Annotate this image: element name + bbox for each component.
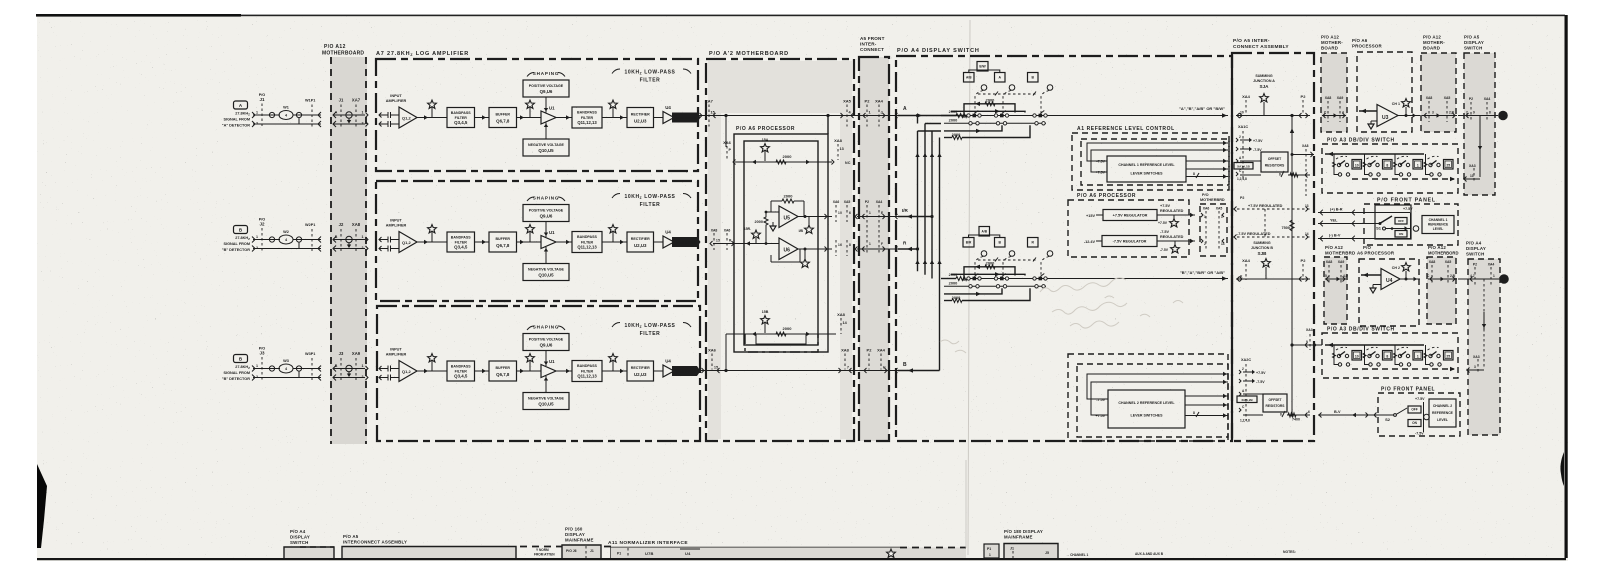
- svg-text:XA8: XA8: [841, 348, 850, 353]
- svg-text:FILTER: FILTER: [581, 116, 594, 120]
- vertical bus lines: [917, 131, 919, 271]
- svg-text:(+) B-R: (+) B-R: [1330, 208, 1343, 212]
- channel input banner: [672, 366, 701, 376]
- svg-text:B/W: B/W: [979, 64, 985, 68]
- svg-text:+7.5V: +7.5V: [1403, 207, 1413, 211]
- svg-text:Q1,2: Q1,2: [402, 369, 411, 374]
- svg-text:13: 13: [1470, 174, 1474, 178]
- svg-text:CHANNEL 2 REFERENCE LEVEL: CHANNEL 2 REFERENCE LEVEL: [1118, 401, 1175, 405]
- svg-text:2000: 2000: [986, 97, 995, 102]
- svg-text:J2: J2: [339, 222, 344, 227]
- wire: [417, 241, 447, 243]
- bandpass filter Q3,4,5: [447, 361, 475, 381]
- R wire left + node: [713, 243, 779, 245]
- svg-text:8: 8: [1489, 111, 1491, 115]
- svg-text:XA6: XA6: [708, 348, 717, 353]
- svg-text:SHAPING: SHAPING: [533, 196, 560, 201]
- svg-text:NEGATIVE VOLTAGE: NEGATIVE VOLTAGE: [528, 143, 565, 147]
- svg-text:2: 2: [362, 122, 364, 126]
- svg-text:3: 3: [1474, 365, 1476, 369]
- svg-text:BANDPASS: BANDPASS: [451, 235, 472, 239]
- svg-text:P/O A5: P/O A5: [1464, 35, 1480, 40]
- svg-text:FILTER: FILTER: [640, 331, 661, 337]
- svg-text:XA8: XA8: [837, 312, 846, 317]
- svg-text:-7.5V: -7.5V: [1415, 432, 1424, 436]
- svg-text:8: 8: [1193, 172, 1195, 176]
- svg-text:FILTER: FILTER: [640, 78, 661, 84]
- svg-text:+7.5V REGULATOR: +7.5V REGULATOR: [1113, 213, 1148, 217]
- amplifier row at y=371.0: [379, 323, 701, 410]
- svg-text:+7.5V: +7.5V: [1160, 204, 1170, 208]
- 7500 resistor on rail: [1290, 220, 1294, 231]
- channel input banner: [672, 237, 701, 247]
- svg-text:Q1,2: Q1,2: [402, 240, 411, 245]
- svg-text:SWITCH: SWITCH: [1466, 252, 1485, 257]
- svg-text:U4: U4: [1386, 278, 1393, 284]
- processor bottom loop for row B: [725, 334, 727, 371]
- svg-text:SJA: SJA: [1260, 84, 1270, 89]
- svg-text:A: A: [903, 106, 907, 112]
- positive voltage shaper Q9,U6: [523, 205, 569, 222]
- log amp box row3: [377, 306, 700, 441]
- svg-text:NEGATIVE VOLTAGE: NEGATIVE VOLTAGE: [528, 267, 565, 271]
- svg-text:INTERCONNECT ASSEMBLY: INTERCONNECT ASSEMBLY: [343, 540, 407, 545]
- relay network 1 component boxes: [977, 62, 988, 72]
- svg-text:9: 9: [1473, 111, 1475, 115]
- rectifier U2,U3: [627, 108, 654, 128]
- svg-text:XA6: XA6: [724, 229, 731, 233]
- bandpass filter Q3,4,5: [447, 232, 475, 252]
- svg-text:XA4: XA4: [1484, 97, 1491, 101]
- input amplifier Q1,2: [399, 107, 417, 128]
- svg-text:P/O A6 PROCESSOR: P/O A6 PROCESSOR: [736, 126, 795, 132]
- node A circle: [1498, 111, 1508, 121]
- svg-text:P/O A3 DB/DIV SWITCH: P/O A3 DB/DIV SWITCH: [1327, 138, 1395, 144]
- svg-text:FILTER: FILTER: [581, 369, 594, 373]
- amplifier row at y=242.0: [379, 194, 701, 281]
- svg-text:J5: J5: [1045, 551, 1049, 555]
- bandpass filter Q3,4,5: [447, 108, 475, 128]
- svg-text:I/B: I/B: [799, 229, 804, 233]
- svg-text:10KHZ LOW-PASS: 10KHZ LOW-PASS: [624, 70, 675, 76]
- svg-text:10: 10: [1355, 355, 1359, 359]
- svg-text:A: A: [335, 111, 338, 115]
- op-amp U5: [779, 206, 798, 228]
- svg-text:U4: U4: [685, 551, 691, 556]
- svg-text:XA7: XA7: [352, 98, 361, 103]
- svg-text:XA2C: XA2C: [1241, 358, 1251, 362]
- svg-text:+7.5V REGULATED: +7.5V REGULATED: [1248, 204, 1283, 208]
- page bottom edge line: [37, 558, 1566, 560]
- svg-text:16: 16: [838, 243, 842, 247]
- svg-text:7400: 7400: [1292, 418, 1300, 422]
- svg-text:XA5: XA5: [844, 200, 851, 204]
- svg-text:SWITCH: SWITCH: [290, 540, 309, 545]
- svg-text:"A" DETECTOR: "A" DETECTOR: [222, 124, 250, 128]
- svg-text:XA4: XA4: [1242, 258, 1251, 263]
- svg-text:CHANNEL 1 REFERENCE LEVEL: CHANNEL 1 REFERENCE LEVEL: [1118, 163, 1175, 167]
- svg-text:1: 1: [362, 235, 364, 239]
- U6 feedback loop: [770, 255, 772, 262]
- svg-text:J3: J3: [259, 351, 265, 356]
- channel input banner: [672, 113, 701, 123]
- svg-text:-12.4V: -12.4V: [1084, 240, 1096, 244]
- svg-text:OFF: OFF: [1411, 408, 1417, 412]
- svg-text:J1: J1: [259, 97, 265, 102]
- svg-text:15R.: 15R.: [744, 227, 751, 231]
- svg-text:1: 1: [989, 553, 991, 557]
- svg-text:AMPLIFIER: AMPLIFIER: [386, 353, 407, 357]
- svg-text:-7.5V: -7.5V: [1253, 148, 1262, 152]
- svg-text:7500: 7500: [1282, 226, 1290, 230]
- positive voltage shaper Q9,U6: [523, 334, 569, 351]
- svg-text:10KHZ LOW-PASS: 10KHZ LOW-PASS: [624, 323, 675, 329]
- test point star: [431, 361, 433, 371]
- svg-text:P2: P2: [1301, 258, 1307, 263]
- svg-text:PROCESSOR: PROCESSOR: [1352, 44, 1382, 49]
- svg-text:P2: P2: [1240, 196, 1244, 200]
- svg-text:Q3,4,5: Q3,4,5: [454, 245, 468, 250]
- svg-text:BANDPASS: BANDPASS: [577, 111, 598, 115]
- buffer Q6,7,8: [489, 108, 517, 128]
- svg-text:P/O A12: P/O A12: [1428, 245, 1446, 250]
- svg-text:X/2A,2B: X/2A,2B: [1241, 398, 1253, 402]
- svg-text:XA8: XA8: [1429, 260, 1436, 264]
- svg-text:10: 10: [1355, 164, 1359, 168]
- svg-text:I/R: I/R: [902, 208, 909, 213]
- svg-text:RECTIFIER: RECTIFIER: [631, 237, 650, 241]
- svg-text:NEGATIVE VOLTAGE: NEGATIVE VOLTAGE: [528, 396, 565, 400]
- svg-text:BANDPASS: BANDPASS: [577, 235, 598, 239]
- svg-text:XA4: XA4: [1488, 263, 1495, 267]
- svg-text:1: 1: [1493, 274, 1495, 278]
- svg-text:P2: P2: [1469, 97, 1473, 101]
- svg-text:XA4: XA4: [1242, 94, 1251, 99]
- svg-text:Q6,7,8: Q6,7,8: [496, 243, 510, 248]
- svg-text:DISPLAY: DISPLAY: [1464, 40, 1484, 45]
- rectifier U2,U3: [627, 232, 654, 252]
- svg-text:XA8: XA8: [352, 222, 361, 227]
- svg-text:Q10,U5: Q10,U5: [538, 148, 554, 153]
- A5 front interconnect column: [859, 57, 889, 441]
- svg-text:MOTHERBORD: MOTHERBORD: [1428, 251, 1458, 256]
- channel 2 reference level cluster: [1068, 354, 1228, 441]
- log amp box row1: [376, 59, 698, 171]
- svg-text:2000: 2000: [755, 220, 763, 224]
- input amplifier Q1,2: [399, 361, 417, 382]
- svg-text:MAINFRAME: MAINFRAME: [565, 538, 594, 543]
- svg-text:P/O A4: P/O A4: [290, 529, 306, 534]
- svg-text:W2P1: W2P1: [305, 223, 315, 227]
- svg-text:8: 8: [849, 243, 851, 247]
- svg-text:CHAN B INPUT: CHAN B INPUT: [676, 116, 696, 120]
- svg-text:P/O A6: P/O A6: [1352, 38, 1368, 43]
- svg-text:AMPLIFIER: AMPLIFIER: [386, 99, 407, 103]
- svg-text:1: 1: [256, 235, 258, 239]
- wire: [417, 370, 447, 372]
- svg-text:J1: J1: [590, 549, 594, 553]
- svg-text:7: 7: [847, 366, 849, 370]
- bandpass filter Q11,12,13: [572, 107, 602, 128]
- svg-text:SHAPING: SHAPING: [533, 325, 560, 330]
- relay network 1: [981, 85, 987, 91]
- svg-text:W3: W3: [283, 359, 289, 363]
- ground: [772, 222, 774, 226]
- svg-text:P/O FRONT PANEL: P/O FRONT PANEL: [1377, 198, 1436, 204]
- svg-text:W1P1: W1P1: [305, 99, 315, 103]
- svg-text:CHAN B INPUT: CHAN B INPUT: [676, 241, 696, 245]
- svg-text:XA6: XA6: [1203, 207, 1210, 211]
- svg-text:+7.5V: +7.5V: [1253, 139, 1263, 143]
- svg-text:P/O: P/O: [1202, 193, 1209, 197]
- op-amp U1: [541, 236, 556, 249]
- svg-text:XA8: XA8: [1326, 260, 1333, 264]
- handwritten pencil scribbles: [1040, 278, 1126, 292]
- bus steps net1: [918, 116, 942, 132]
- svg-text:A7 27.8KHZ LOG AMPLIFIER: A7 27.8KHZ LOG AMPLIFIER: [376, 51, 469, 57]
- svg-text:3: 3: [1432, 111, 1434, 115]
- svg-text:XA4: XA4: [875, 99, 884, 104]
- svg-text:FILTER: FILTER: [581, 240, 594, 244]
- svg-text:2000: 2000: [949, 109, 958, 114]
- svg-text:OFFSET: OFFSET: [1268, 157, 1282, 161]
- svg-text:U4: U4: [665, 230, 671, 235]
- svg-text:CHAN B INPUT: CHAN B INPUT: [676, 370, 696, 374]
- row B wire across motherboard: [700, 370, 860, 372]
- svg-text:JUNCTION B: JUNCTION B: [1251, 246, 1273, 250]
- svg-text:POSITIVE VOLTAGE: POSITIVE VOLTAGE: [529, 337, 564, 341]
- svg-text:SIGNAL FROM: SIGNAL FROM: [223, 118, 250, 122]
- svg-text:MOTHER-: MOTHER-: [1423, 40, 1445, 45]
- svg-text:R: R: [729, 239, 732, 243]
- svg-text:JUNCTION A: JUNCTION A: [1253, 79, 1275, 83]
- svg-text:XA1A,1B: XA1A,1B: [1237, 165, 1251, 169]
- svg-text:25: 25: [1446, 355, 1450, 359]
- op-amp U4 right: [1381, 269, 1400, 290]
- svg-text:1: 1: [362, 364, 364, 368]
- svg-text:LEVER SWITCHES: LEVER SWITCHES: [1131, 172, 1164, 176]
- svg-text:XA5: XA5: [843, 99, 852, 104]
- bandpass filter Q11,12,13: [572, 361, 602, 382]
- svg-text:OFFSET: OFFSET: [1268, 398, 1281, 402]
- svg-text:AMPLIFIER: AMPLIFIER: [386, 224, 407, 228]
- svg-text:Q10,U5: Q10,U5: [538, 272, 554, 277]
- svg-text:W2: W2: [283, 230, 289, 234]
- svg-text:XA6: XA6: [833, 200, 840, 204]
- svg-text:J2: J2: [259, 222, 265, 227]
- svg-text:RECTIFIER: RECTIFIER: [631, 366, 650, 370]
- svg-text:(-) B-V: (-) B-V: [1329, 234, 1341, 238]
- svg-text:REFERENCE: REFERENCE: [1432, 411, 1454, 415]
- svg-text:INTER-: INTER-: [860, 42, 877, 47]
- 15A star: [764, 151, 766, 161]
- input row J3: [222, 347, 368, 382]
- svg-text:-7.5V: -7.5V: [1160, 248, 1169, 252]
- svg-text:P2: P2: [865, 99, 871, 104]
- svg-text:A1 REFERENCE LEVEL CONTROL: A1 REFERENCE LEVEL CONTROL: [1077, 126, 1175, 132]
- svg-text:15: 15: [714, 366, 718, 370]
- negative voltage shaper Q10,U5: [523, 393, 569, 410]
- positive voltage shaper Q9,U6: [523, 80, 569, 97]
- svg-text:P1: P1: [617, 552, 621, 556]
- I/R wire from U5 out: [798, 216, 832, 218]
- svg-text:Y NORM: Y NORM: [536, 548, 549, 552]
- svg-text:Q11,12,13: Q11,12,13: [577, 374, 597, 379]
- svg-text:YEL: YEL: [1330, 219, 1338, 223]
- svg-text:A/B: A/B: [966, 75, 972, 79]
- svg-text:2000: 2000: [949, 118, 958, 123]
- node drop to XA6 P connector: [724, 114, 727, 117]
- svg-text:B/R: B/R: [966, 240, 972, 244]
- svg-text:Q9,U6: Q9,U6: [540, 89, 553, 94]
- svg-text:INPUT: INPUT: [390, 219, 402, 223]
- svg-text:13: 13: [840, 147, 844, 151]
- svg-text:2000: 2000: [949, 272, 958, 277]
- amplifier row at y=117.5: [379, 69, 701, 156]
- svg-text:+7.5V: +7.5V: [1415, 397, 1425, 401]
- svg-text:XA9: XA9: [1337, 96, 1344, 100]
- svg-text:BUFFER: BUFFER: [495, 112, 510, 116]
- svg-text:Q6,7,8: Q6,7,8: [496, 372, 510, 377]
- svg-text:"B" DETECTOR: "B" DETECTOR: [222, 377, 250, 381]
- svg-text:A11 NORMALIZER INTERFACE: A11 NORMALIZER INTERFACE: [608, 540, 688, 546]
- svg-text:P/O FRONT PANEL: P/O FRONT PANEL: [1381, 387, 1435, 393]
- svg-text:2: 2: [362, 375, 364, 379]
- svg-text:-7.5V: -7.5V: [1160, 230, 1170, 234]
- svg-text:P/O A′2 MOTHERBOARD: P/O A′2 MOTHERBOARD: [709, 51, 789, 57]
- svg-text:BANDPASS: BANDPASS: [577, 364, 598, 368]
- svg-text:-7.5V REGULATED: -7.5V REGULATED: [1237, 232, 1271, 236]
- svg-text:CONNECT ASSEMBLY: CONNECT ASSEMBLY: [1233, 44, 1289, 50]
- svg-text:CHANNEL 1: CHANNEL 1: [1429, 218, 1448, 222]
- svg-text:XA7: XA7: [705, 99, 714, 104]
- svg-text:XA9: XA9: [352, 351, 361, 356]
- svg-text:1: 1: [1417, 355, 1419, 359]
- svg-text:4,J: 4,J: [1470, 274, 1475, 278]
- relay network 2 component boxes: [979, 227, 990, 237]
- svg-text:15: 15: [716, 239, 720, 243]
- svg-text:15A: 15A: [762, 138, 769, 142]
- svg-text:B: B: [1502, 277, 1505, 282]
- svg-text:Q11,12,13: Q11,12,13: [577, 120, 597, 125]
- svg-text:OFF: OFF: [1398, 219, 1404, 223]
- svg-text:2: 2: [1204, 242, 1206, 246]
- svg-text:J3: J3: [339, 351, 344, 356]
- negative voltage shaper Q10,U5: [523, 139, 569, 156]
- svg-text:INPUT: INPUT: [390, 348, 402, 352]
- svg-text:10KHZ LOW-PASS: 10KHZ LOW-PASS: [624, 194, 675, 200]
- svg-text:Q3,4,5: Q3,4,5: [454, 120, 468, 125]
- svg-text:SIGNAL FROM: SIGNAL FROM: [223, 371, 250, 375]
- svg-text:1: 1: [869, 242, 871, 246]
- rectifier U2,U3: [627, 361, 654, 381]
- svg-text:B-V: B-V: [1334, 410, 1341, 414]
- svg-text:XA4: XA4: [877, 348, 886, 353]
- input coupling capacitors + wires: [379, 366, 382, 371]
- svg-text:XA8: XA8: [1325, 96, 1332, 100]
- svg-text:1: 1: [869, 111, 871, 115]
- svg-text:XA1C: XA1C: [1238, 125, 1248, 129]
- svg-text:25: 25: [1446, 164, 1450, 168]
- svg-text:MOTHERBRD: MOTHERBRD: [1200, 198, 1225, 202]
- svg-text:8: 8: [1279, 173, 1281, 177]
- 15R star on R wire: [755, 238, 757, 244]
- svg-text:A5 FRONT: A5 FRONT: [860, 36, 885, 41]
- svg-text:U1: U1: [549, 230, 555, 235]
- input coupling capacitors + wires: [379, 237, 382, 242]
- ground U3: [1371, 120, 1377, 122]
- svg-text:"A","B","A/B" OR "B/W": "A","B","A/B" OR "B/W": [1179, 106, 1225, 111]
- svg-text:Q6,7,8: Q6,7,8: [496, 118, 510, 123]
- svg-text:10: 10: [838, 211, 842, 215]
- buffer Q6,7,8: [489, 232, 517, 252]
- svg-text:U2,U3: U2,U3: [634, 243, 647, 248]
- svg-text:W3P1: W3P1: [305, 352, 315, 356]
- svg-text:BANDPASS: BANDPASS: [451, 111, 472, 115]
- svg-text:BOARD: BOARD: [1423, 46, 1440, 51]
- svg-text:SHAPING: SHAPING: [533, 71, 560, 76]
- svg-text:1: 1: [362, 111, 364, 115]
- svg-text:XA3: XA3: [1469, 164, 1476, 168]
- page top edge line: [36, 14, 241, 17]
- svg-text:ON: ON: [1412, 421, 1417, 425]
- svg-text:CH 1: CH 1: [1392, 102, 1400, 106]
- svg-text:REGULATED: REGULATED: [1160, 209, 1184, 213]
- svg-text:RESISTORS: RESISTORS: [1265, 164, 1285, 168]
- svg-text:XA9: XA9: [1338, 260, 1345, 264]
- svg-text:1,2,4,8: 1,2,4,8: [1237, 177, 1247, 181]
- svg-text:1: 1: [256, 111, 258, 115]
- svg-text:P/O A12: P/O A12: [1423, 35, 1441, 40]
- svg-text:1: 1: [869, 211, 871, 215]
- svg-text:P/O A3 DB/DIV SWITCH: P/O A3 DB/DIV SWITCH: [1327, 327, 1395, 333]
- svg-text:XA5: XA5: [1445, 260, 1452, 264]
- svg-text:POSITIVE VOLTAGE: POSITIVE VOLTAGE: [529, 84, 564, 88]
- svg-text:XA6: XA6: [723, 140, 732, 145]
- svg-text:BOARD: BOARD: [1321, 46, 1338, 51]
- svg-text:SUMMING: SUMMING: [1253, 241, 1271, 245]
- svg-text:NOTES:: NOTES:: [1283, 550, 1296, 554]
- page right edge line: [1565, 15, 1568, 558]
- svg-text:1: 1: [1417, 164, 1419, 168]
- svg-text:Q11,12,13: Q11,12,13: [577, 245, 597, 250]
- svg-text:ON: ON: [1399, 232, 1404, 236]
- svg-text:U1: U1: [549, 106, 555, 111]
- input coupling capacitors + wires: [379, 113, 382, 118]
- svg-text:XA8: XA8: [1426, 96, 1433, 100]
- svg-text:XA8: XA8: [1302, 144, 1309, 148]
- svg-text:1,2,4,8: 1,2,4,8: [1240, 419, 1250, 423]
- svg-text:REGULATED: REGULATED: [1160, 235, 1184, 239]
- svg-text:U5: U5: [784, 216, 791, 222]
- svg-text:J1: J1: [1010, 547, 1014, 551]
- svg-text:+15V: +15V: [1086, 214, 1095, 218]
- svg-text:P/O A4: P/O A4: [1466, 241, 1482, 246]
- svg-text:U1: U1: [549, 359, 555, 364]
- svg-text:SUMMING: SUMMING: [1255, 74, 1273, 78]
- svg-text:DISPLAY: DISPLAY: [290, 535, 310, 540]
- svg-text:XA3: XA3: [1473, 355, 1480, 359]
- svg-text:P/O A4 DISPLAY SWITCH: P/O A4 DISPLAY SWITCH: [897, 48, 980, 54]
- svg-text:2000: 2000: [783, 154, 793, 159]
- svg-text:P/O A12: P/O A12: [1325, 245, 1343, 250]
- svg-text:1: 1: [1204, 215, 1206, 219]
- svg-text:NC: NC: [845, 161, 851, 165]
- svg-text:S1: S1: [1376, 226, 1382, 231]
- nested loops: [756, 334, 806, 344]
- svg-text:FILTER: FILTER: [640, 202, 661, 208]
- svg-text:8: 8: [1386, 355, 1388, 359]
